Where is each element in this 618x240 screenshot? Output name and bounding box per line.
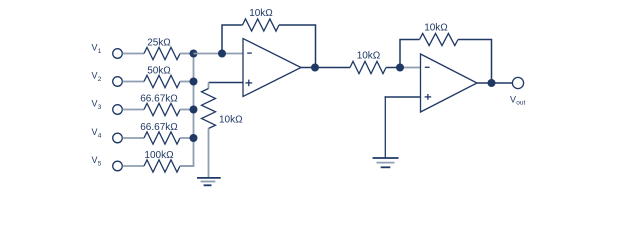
svg-text:10kΩ: 10kΩ [219,115,243,126]
svg-text:10kΩ: 10kΩ [424,23,448,34]
resistor R2 50kohm [144,75,180,87]
resistor R9 10kohm feedback U2 [420,33,459,45]
junction [190,134,198,142]
label Vout [510,95,526,107]
wire R5 to summing bus [180,165,194,167]
node V3 input terminal [113,105,123,115]
wire V4 terminal to resistor [123,137,145,139]
junction U1 output node [311,64,319,72]
resistor R5 100kohm [144,160,180,172]
resistor R3 66.67kohm [144,103,180,115]
node V4 input terminal [113,133,123,143]
svg-text:10kΩ: 10kΩ [249,8,273,19]
junction [190,106,198,114]
svg-text:66.67kΩ: 66.67kΩ [140,122,178,133]
wire summing node to U1 inverting input [194,53,244,55]
label V5 [92,155,102,167]
svg-text:4: 4 [98,133,102,140]
wire summing bus vertical [181,54,194,167]
svg-text:out: out [516,99,525,106]
svg-text:V: V [92,127,98,137]
wire R1 to summing bus [180,53,194,55]
wire R4 to summing bus [180,137,194,139]
label V1 [92,43,102,55]
wire node B to U2 inverting input [400,67,421,69]
label V4 [92,127,102,139]
junction [190,78,198,86]
wire U1 noninverting input [209,82,244,84]
svg-text:V: V [92,43,98,53]
wire R8 to node B [386,67,400,69]
svg-text:5: 5 [98,161,102,168]
resistor R1 25kohm [144,47,180,59]
svg-text:25kΩ: 25kΩ [147,38,171,49]
junction node B (U2 inverting input) [396,64,404,72]
svg-text:V: V [92,71,98,81]
resistor R6 10kohm feedback U1 [243,19,280,31]
svg-text:V: V [92,99,98,109]
node V2 input terminal [113,77,123,87]
wire corner down to R7 [208,83,210,89]
wire U1 feedback right [279,25,316,68]
junction U2 output node [488,79,496,87]
svg-text:V: V [510,95,516,105]
wire R2 to summing bus [180,81,194,83]
op-amp U2 [421,54,478,112]
label V3 [92,99,102,111]
junction node A (U1 inverting input) [218,50,226,58]
node V1 input terminal [113,49,123,59]
op-amp U1 [243,39,301,97]
svg-text:1: 1 [98,48,102,55]
wire R3 to summing bus [180,109,194,111]
svg-text:3: 3 [98,104,102,111]
wire V5 terminal to resistor [123,165,145,167]
wire R7 to ground [208,129,210,178]
junction [190,50,198,58]
node V5 input terminal [113,161,123,171]
wire U1 feedback left [222,25,243,54]
wire U2 feedback left [400,40,420,68]
wire U1 output [301,67,350,69]
resistor R4 66.67kohm [144,132,180,144]
svg-text:V: V [92,155,98,165]
svg-text:2: 2 [98,76,102,83]
label V2 [92,71,102,83]
wire U2 noninverting to ground [384,96,386,157]
svg-text:10kΩ: 10kΩ [357,51,381,62]
wire V2 terminal to resistor [123,81,145,83]
wire V3 terminal to resistor [123,109,145,111]
wire U2 noninverting input [385,96,421,98]
svg-text:66.67kΩ: 66.67kΩ [140,94,178,105]
node Vout output terminal [512,77,523,88]
ground G1 [197,178,221,185]
ground G2 [373,158,399,167]
svg-text:50kΩ: 50kΩ [147,66,171,77]
wire U2 feedback right [458,40,492,84]
wire U2 output [477,82,513,84]
resistor R7 10kohm to ground [202,89,216,129]
svg-text:100kΩ: 100kΩ [144,150,174,161]
resistor R8 10kohm interstage [350,61,386,73]
wire V1 terminal to resistor [123,53,145,55]
